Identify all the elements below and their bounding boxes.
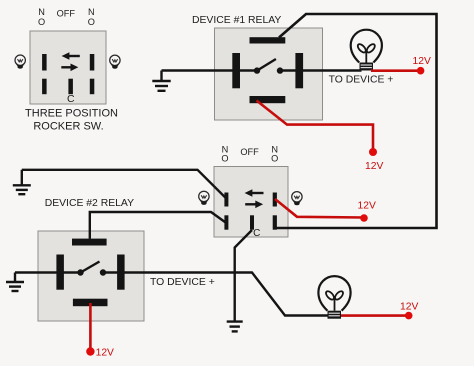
rocker switch SW2 body — [214, 167, 288, 238]
svg-text:O: O — [271, 153, 278, 163]
SW1 lamp icon right — [110, 55, 120, 69]
wire G3 to relay U2 left contact — [15, 271, 81, 273]
U2 contact throw dot — [100, 269, 106, 275]
lamp L2 bulb — [318, 276, 350, 319]
svg-text:12V: 12V — [400, 302, 418, 313]
wire relay U2 coil top to SW2 bottom-left pin — [90, 212, 227, 239]
svg-text:TO DEVICE +: TO DEVICE + — [150, 277, 215, 288]
wire SW2 top-right pin to +12V (red) — [275, 199, 364, 218]
relay U1 (DEVICE #1 RELAY) body — [215, 28, 323, 120]
wire U1 coil bottom to +12V (red) — [257, 101, 374, 152]
relay U2 (DEVICE #2 RELAY) body — [38, 231, 144, 321]
SW2 pin bar bottom-right — [273, 215, 277, 229]
wire SW2 C pin to ground G4 — [235, 230, 252, 321]
U1 coil bar top — [250, 37, 286, 43]
wire G1 to relay U1 left contact — [162, 69, 258, 71]
rocker switch SW1 (legend) body — [30, 31, 106, 104]
node +12V terminal dot (L2) — [405, 312, 413, 320]
wire U1 coil top to right bus (diagonal) — [276, 14, 437, 228]
svg-text:OFF: OFF — [57, 8, 76, 18]
wire U2 coil bottom to +12V (red) — [89, 303, 92, 351]
svg-text:THREE POSITION: THREE POSITION — [25, 108, 118, 120]
wire lamp L2 to +12V (red) — [341, 314, 409, 317]
U1 contact bar left — [232, 53, 240, 88]
SW2 lamp icon right — [292, 192, 302, 206]
svg-text:C: C — [253, 228, 260, 239]
svg-text:12V: 12V — [96, 348, 114, 359]
U2 coil bar bottom — [73, 299, 108, 307]
SW1 right-throw arrow — [61, 64, 78, 72]
U1 contact blade — [257, 59, 276, 71]
svg-text:DEVICE #2 RELAY: DEVICE #2 RELAY — [45, 198, 134, 209]
SW1 pin bar C (bottom-middle) — [68, 79, 73, 95]
ground G4 (SW2 common) — [227, 322, 243, 332]
node +12V terminal dot (L1) — [417, 67, 425, 75]
U2 contact bar left — [56, 255, 64, 290]
U2 contact blade — [81, 262, 100, 273]
U2 contact bar right — [117, 255, 125, 290]
svg-text:ROCKER SW.: ROCKER SW. — [33, 121, 103, 133]
svg-text:12V: 12V — [413, 56, 431, 67]
wire G2 to SW2 top-left pin — [22, 170, 227, 199]
SW1 left-throw arrow — [62, 52, 80, 60]
SW2 right-throw arrow — [245, 201, 263, 209]
svg-text:O: O — [221, 153, 228, 163]
wire U1 output to lamp L1 — [280, 69, 362, 71]
node +12V terminal dot (U2 coil) — [86, 347, 94, 355]
svg-text:12V: 12V — [365, 161, 383, 172]
wire U2 output to lamp L2 — [103, 273, 328, 316]
svg-text:N: N — [38, 7, 45, 17]
U2 contact pole dot — [77, 269, 83, 275]
ground G3 (relay U2 contact) — [6, 273, 24, 292]
U2 coil bar top — [72, 239, 107, 246]
SW1 pin bar bottom-left — [42, 79, 47, 95]
ground G2 (rocker SW2 pin 1) — [13, 170, 31, 194]
U1 contact pole dot — [254, 67, 260, 73]
node +12V terminal dot (SW2) — [360, 214, 368, 222]
SW2 lamp icon left — [199, 191, 209, 205]
SW2 pin bar C (bottom-middle) — [250, 215, 254, 229]
U1 coil bar bottom — [250, 96, 286, 103]
SW1 pin bar bottom-right — [90, 79, 95, 95]
svg-text:N: N — [88, 7, 95, 17]
svg-text:O: O — [38, 17, 45, 27]
SW2 pin bar top-left — [224, 193, 228, 207]
SW2 pin bar bottom-left — [224, 215, 228, 229]
svg-text:C: C — [67, 93, 75, 105]
svg-text:DEVICE #1 RELAY: DEVICE #1 RELAY — [192, 15, 281, 26]
wire lamp L1 to +12V (red) — [371, 69, 421, 72]
SW2 left-throw arrow — [245, 189, 264, 197]
svg-text:TO DEVICE +: TO DEVICE + — [329, 75, 394, 86]
SW1 lamp icon left — [15, 55, 25, 69]
SW1 pin bar top-right — [90, 54, 95, 71]
lamp L1 bulb — [351, 30, 382, 71]
ground G1 (relay U1 coil) — [152, 71, 170, 91]
svg-text:OFF: OFF — [240, 147, 259, 157]
svg-text:12V: 12V — [358, 201, 376, 212]
svg-text:O: O — [88, 17, 95, 27]
U1 contact throw dot — [277, 67, 283, 73]
U1 contact bar right — [295, 53, 303, 88]
node +12V terminal dot (U1 coil) — [369, 148, 377, 156]
SW2 pin bar top-right — [273, 193, 277, 207]
SW1 pin bar top-left — [42, 54, 47, 71]
